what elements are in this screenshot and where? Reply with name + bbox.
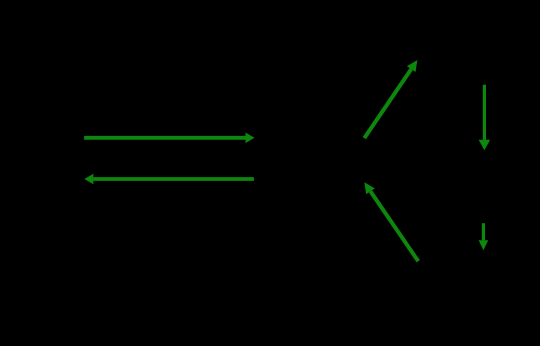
arrow diagonal up-left: bottom-right species to center species — [364, 182, 418, 261]
arrow reverse: center species to left species (bottom, pointing left) — [84, 174, 254, 185]
arrow forward: left species to center species (top, pointing right) — [84, 133, 254, 144]
arrow vertical long: top-right species down to middle-right species — [479, 85, 491, 151]
arrow diagonal up-right: center species to top-right species — [364, 60, 417, 138]
arrow vertical short: middle-right species down to bottom-right species — [479, 223, 489, 250]
